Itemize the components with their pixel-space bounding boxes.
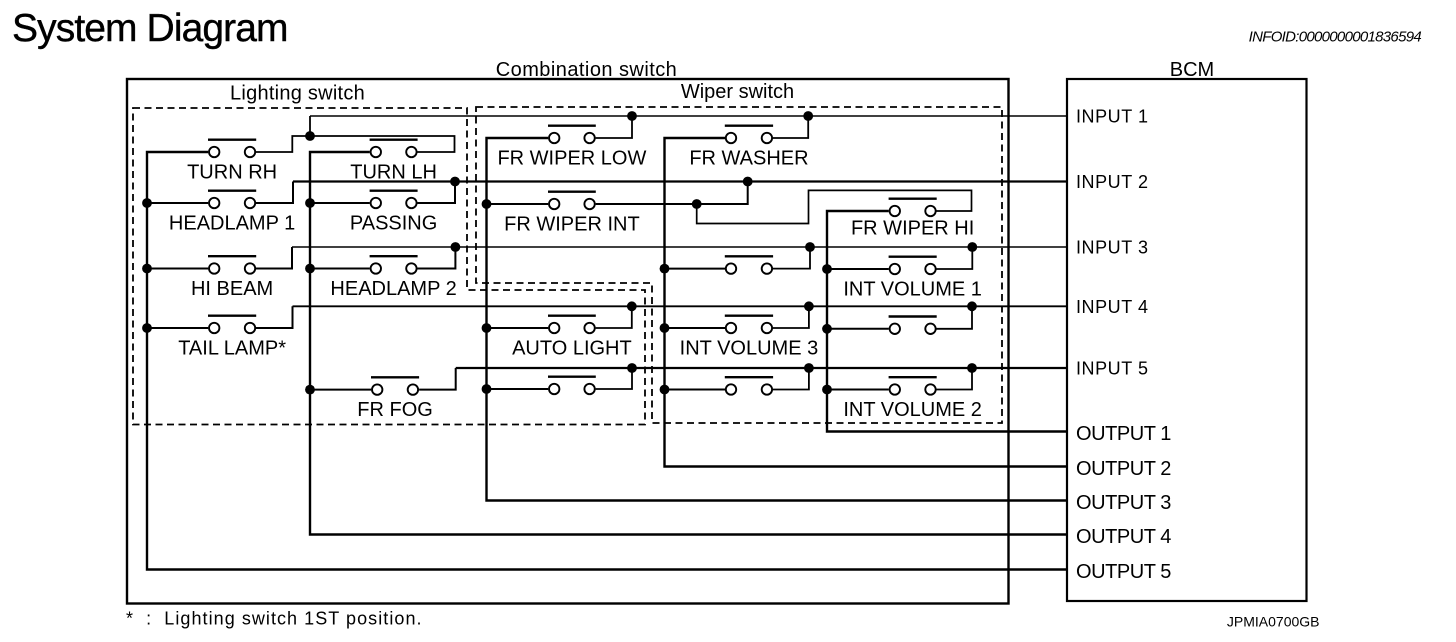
junction INT VOLUME 3 / INPUT 4 bbox=[804, 301, 814, 311]
switch FR WIPER LOW bbox=[497, 126, 646, 170]
junction FR WIPER HI branch bbox=[692, 199, 702, 209]
wire FR WASHER right bbox=[773, 116, 808, 138]
wire INPUT 2 line bbox=[293, 180, 1067, 182]
wire PASSING right bbox=[417, 182, 455, 204]
svg-text:OUTPUT 3: OUTPUT 3 bbox=[1076, 492, 1171, 514]
svg-text:OUTPUT 2: OUTPUT 2 bbox=[1076, 458, 1171, 480]
svg-text:OUTPUT 5: OUTPUT 5 bbox=[1076, 561, 1171, 583]
wire INPUT 4 line bbox=[293, 305, 1068, 307]
wire TAIL LAMP left bbox=[147, 327, 208, 329]
switch unlabeled switch SW_D2 bbox=[725, 256, 773, 274]
switch TAIL LAMP* bbox=[178, 316, 286, 360]
wire TURN RH right bbox=[256, 136, 306, 152]
wire switch E3 right bbox=[937, 306, 973, 329]
junction FR FOG left bbox=[305, 385, 315, 395]
wire switch C4 right bbox=[596, 368, 632, 389]
wire INT VOLUME 2 left bbox=[827, 389, 889, 391]
junction PASSING left bbox=[305, 198, 315, 208]
junction INT VOLUME 2 left bbox=[822, 385, 832, 395]
wire INT VOLUME 3 right bbox=[773, 306, 809, 328]
wire HI BEAM right bbox=[256, 247, 292, 269]
junction switch E3 left bbox=[822, 324, 832, 334]
svg-text:INT VOLUME 2: INT VOLUME 2 bbox=[843, 399, 982, 421]
junction INT VOLUME 1 left bbox=[822, 264, 832, 274]
wiper switch dashed outline bbox=[476, 107, 1002, 423]
switch FR WIPER HI bbox=[851, 199, 974, 240]
wire switch D4 left bbox=[665, 389, 726, 391]
junction FR WIPER INT left bbox=[482, 199, 492, 209]
wire AUTO LIGHT right bbox=[596, 306, 632, 328]
svg-text:HEADLAMP 2: HEADLAMP 2 bbox=[330, 278, 456, 300]
wire INPUT 5 line bbox=[456, 367, 1067, 369]
wire HEADLAMP 1 right bbox=[256, 182, 293, 204]
svg-text:TURN RH: TURN RH bbox=[187, 161, 277, 183]
wire OUTPUT 2 bus bbox=[665, 138, 1068, 467]
BCM box bbox=[1067, 79, 1307, 601]
svg-text:INPUT 5: INPUT 5 bbox=[1076, 359, 1149, 379]
wire HI BEAM left bbox=[147, 268, 208, 270]
wire switch E3 left bbox=[827, 328, 889, 330]
wire PASSING left bbox=[310, 202, 370, 204]
wire OUTPUT 5 bus bbox=[147, 152, 1067, 570]
switch PASSING bbox=[350, 191, 437, 235]
svg-text:FR WIPER HI: FR WIPER HI bbox=[851, 218, 974, 240]
switch HI BEAM bbox=[191, 256, 273, 300]
wire FR WIPER LOW right bbox=[596, 116, 632, 138]
switch TURN LH bbox=[350, 140, 437, 184]
junction HEADLAMP 2 left bbox=[305, 264, 315, 274]
wire HEADLAMP 2 left bbox=[310, 268, 370, 270]
switch INT VOLUME 1 bbox=[843, 257, 982, 301]
wire AUTO LIGHT left bbox=[487, 327, 549, 329]
wire switch C4 left bbox=[487, 388, 549, 390]
junction FR WASHER / INPUT 1 bbox=[803, 111, 813, 121]
svg-text:INPUT 4: INPUT 4 bbox=[1076, 297, 1149, 317]
junction INT VOLUME 3 left bbox=[660, 323, 670, 333]
svg-text:Lighting switch: Lighting switch bbox=[230, 83, 365, 105]
svg-text:TURN LH: TURN LH bbox=[350, 161, 437, 183]
junction AUTO LIGHT left bbox=[482, 323, 492, 333]
wire OUTPUT 1 bus bbox=[827, 211, 1067, 432]
junction switch E3 / INPUT 4 bbox=[967, 301, 977, 311]
junction INT VOLUME 2 / INPUT 5 bbox=[967, 363, 977, 373]
switch AUTO LIGHT bbox=[512, 316, 632, 360]
combination switch box bbox=[127, 79, 1009, 604]
junction TAIL LAMP left bbox=[142, 323, 152, 333]
svg-text:HI BEAM: HI BEAM bbox=[191, 278, 273, 300]
wire HEADLAMP 2 right bbox=[417, 247, 455, 269]
switch HEADLAMP 2 bbox=[330, 256, 456, 300]
switch FR WASHER bbox=[689, 126, 808, 170]
wire INT VOLUME 1 left bbox=[827, 268, 889, 270]
junction HEADLAMP 1 left bbox=[142, 198, 152, 208]
svg-text:FR WIPER INT: FR WIPER INT bbox=[504, 213, 640, 235]
wire switch D4 right bbox=[773, 368, 809, 390]
wire switch D2 right bbox=[773, 247, 810, 269]
wire FR FOG right bbox=[419, 368, 456, 390]
wire INT VOLUME 2 right bbox=[937, 368, 973, 390]
svg-text:OUTPUT 4: OUTPUT 4 bbox=[1076, 526, 1171, 548]
wire FR WIPER HI right link bbox=[697, 190, 972, 223]
switch FR FOG bbox=[357, 377, 433, 421]
wire TURN LH right bbox=[314, 136, 455, 152]
wire INT VOLUME 1 right bbox=[937, 247, 973, 269]
svg-text:HEADLAMP 1: HEADLAMP 1 bbox=[169, 212, 295, 234]
svg-text:INT VOLUME 3: INT VOLUME 3 bbox=[680, 337, 819, 359]
wire FR WIPER INT left bbox=[487, 203, 549, 205]
junction switch D4 left bbox=[660, 385, 670, 395]
junction switch C4 left bbox=[482, 384, 492, 394]
junction HI BEAM left bbox=[142, 264, 152, 274]
wire FR FOG left bbox=[310, 389, 371, 391]
svg-text:TAIL LAMP*: TAIL LAMP* bbox=[178, 337, 286, 359]
junction switch D2 / INPUT 3 bbox=[805, 242, 815, 252]
svg-text:Wiper switch: Wiper switch bbox=[681, 81, 794, 103]
svg-text:INPUT 2: INPUT 2 bbox=[1076, 172, 1149, 192]
switch FR WIPER INT bbox=[504, 192, 640, 236]
junction INT VOLUME 1 / INPUT 3 bbox=[967, 242, 977, 252]
junction INPUT 1 / TURN switches bbox=[305, 131, 315, 141]
junction FR WIPER INT / INPUT 2 bbox=[743, 177, 753, 187]
junction switch C4 / INPUT 5 bbox=[627, 363, 637, 373]
switch INT VOLUME 2 bbox=[843, 377, 982, 421]
svg-text:FR WASHER: FR WASHER bbox=[689, 147, 808, 169]
junction switch D2 left bbox=[660, 264, 670, 274]
svg-text:BCM: BCM bbox=[1170, 59, 1214, 81]
svg-text:* : Lighting switch 1ST posi: * : Lighting switch 1ST position. bbox=[126, 609, 423, 629]
wire HEADLAMP 1 left bbox=[147, 202, 208, 204]
junction switch D4 / INPUT 5 bbox=[804, 363, 814, 373]
svg-text:FR WIPER LOW: FR WIPER LOW bbox=[497, 147, 646, 169]
wire switch D2 left bbox=[665, 268, 726, 270]
wire INPUT 1 stub down bbox=[309, 116, 311, 136]
switch HEADLAMP 1 bbox=[169, 191, 295, 235]
wire INPUT 3 line bbox=[292, 246, 1067, 248]
switch TURN RH bbox=[187, 140, 277, 184]
svg-text:PASSING: PASSING bbox=[350, 212, 437, 234]
switch unlabeled switch SW_C4 bbox=[548, 377, 596, 394]
wire INPUT 1 line bbox=[310, 115, 1067, 117]
wire OUTPUT 3 bus bbox=[487, 138, 1068, 501]
switch unlabeled switch SW_D4 bbox=[725, 377, 773, 394]
svg-text:FR FOG: FR FOG bbox=[357, 399, 433, 421]
svg-text:AUTO LIGHT: AUTO LIGHT bbox=[512, 337, 632, 359]
junction AUTO LIGHT / INPUT 4 bbox=[627, 301, 637, 311]
junction HEADLAMP 2 / INPUT 3 bbox=[451, 242, 461, 252]
switch unlabeled switch SW_E3 bbox=[889, 317, 937, 334]
svg-text:System Diagram: System Diagram bbox=[12, 7, 288, 50]
switch INT VOLUME 3 bbox=[680, 316, 819, 360]
svg-text:INPUT 3: INPUT 3 bbox=[1076, 238, 1149, 258]
svg-text:Combination switch: Combination switch bbox=[496, 59, 678, 81]
svg-text:OUTPUT 1: OUTPUT 1 bbox=[1076, 423, 1171, 445]
svg-text:INPUT 1: INPUT 1 bbox=[1076, 107, 1149, 127]
wire FR WIPER INT right bbox=[596, 182, 748, 205]
svg-text:INT VOLUME 1: INT VOLUME 1 bbox=[843, 278, 982, 300]
svg-text:JPMIA0700GB: JPMIA0700GB bbox=[1227, 614, 1320, 630]
junction PASSING / INPUT 2 bbox=[450, 177, 460, 187]
junction FR WIPER LOW / INPUT 1 bbox=[627, 111, 637, 121]
lighting switch dashed outline bbox=[133, 108, 645, 425]
svg-text:INFOID:0000000001836594: INFOID:0000000001836594 bbox=[1249, 29, 1422, 46]
wire TAIL LAMP right bbox=[256, 306, 293, 328]
wire INT VOLUME 3 left bbox=[665, 327, 726, 329]
wire OUTPUT 4 bus bbox=[310, 152, 1067, 535]
